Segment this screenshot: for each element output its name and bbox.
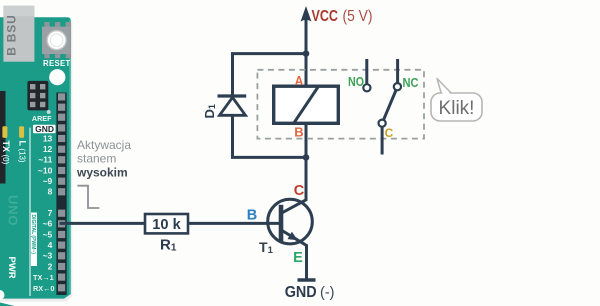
svg-text:RESET: RESET [43,59,71,68]
svg-text:7: 7 [48,208,53,218]
svg-text:B BSU: B BSU [5,14,19,55]
svg-text:~6: ~6 [43,219,53,229]
svg-text:AREF: AREF [32,114,52,123]
svg-text:DIGITAL (PWM~): DIGITAL (PWM~) [30,215,36,255]
svg-text:VCC: VCC [312,8,339,25]
svg-text:~11: ~11 [38,155,52,165]
svg-text:NO: NO [348,75,364,89]
svg-text:A: A [295,73,304,88]
svg-text:wysokim: wysokim [76,165,128,179]
svg-text:2: 2 [48,261,53,271]
svg-text:B: B [247,208,257,224]
svg-text:R1: R1 [160,237,177,254]
svg-text:PWR: PWR [6,257,17,279]
svg-text:UNO: UNO [6,195,21,226]
svg-text:stanem: stanem [77,152,116,166]
svg-text:~5: ~5 [43,229,53,239]
svg-text:E: E [293,250,303,266]
svg-text:GND: GND [285,284,317,301]
svg-text:12: 12 [43,144,53,154]
svg-text:L (13): L (13) [17,141,27,163]
svg-text:13: 13 [43,133,53,143]
svg-text:B: B [294,125,303,140]
svg-text:RX←0: RX←0 [33,284,55,293]
svg-text:~10: ~10 [38,165,53,175]
svg-text:T1: T1 [259,239,274,256]
svg-text:D1: D1 [202,104,217,118]
svg-text:8: 8 [48,187,53,197]
svg-text:~9: ~9 [43,176,53,186]
svg-text:TX→1: TX→1 [33,273,54,282]
svg-text:C: C [294,183,305,199]
svg-text:~3: ~3 [43,251,53,261]
svg-text:(5 V): (5 V) [343,8,373,25]
svg-text:(-): (-) [320,285,335,301]
svg-text:10 k: 10 k [152,216,181,233]
svg-text:Aktywacja: Aktywacja [77,138,131,152]
svg-text:Klik!: Klik! [439,98,475,119]
svg-text:4: 4 [48,240,53,250]
svg-text:NC: NC [403,76,419,90]
svg-text:C: C [385,126,394,140]
svg-text:TX (0): TX (0) [1,141,11,165]
